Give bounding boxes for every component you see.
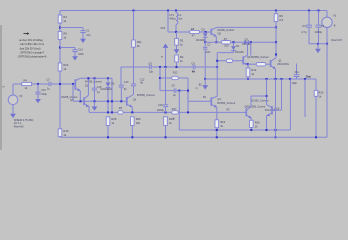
svg-text:R19: R19 (220, 120, 225, 124)
svg-text:4.7µ: 4.7µ (301, 30, 307, 34)
svg-text:Rser=0.5: Rser=0.5 (332, 38, 343, 42)
svg-text:10p: 10p (149, 70, 154, 73)
svg-text:100: 100 (224, 44, 229, 47)
svg-text:C14: C14 (78, 48, 83, 51)
svg-text:R13: R13 (251, 68, 256, 72)
svg-text:R3: R3 (63, 15, 67, 19)
svg-text:.tran 0 80m 30m 0.1u: .tran 0 80m 30m 0.1u (20, 42, 45, 46)
svg-text:R9: R9 (279, 14, 283, 18)
svg-text:R26: R26 (136, 117, 141, 121)
svg-text:R20: R20 (255, 120, 260, 124)
svg-text:R12: R12 (173, 72, 178, 75)
svg-text:R27: R27 (169, 117, 174, 121)
svg-text:640µ: 640µ (170, 16, 176, 20)
svg-text:Q8 BC550_Curent: Q8 BC550_Curent (245, 105, 266, 108)
svg-text:R8: R8 (191, 27, 195, 31)
svg-text:V1: V1 (333, 14, 337, 18)
svg-text:1N4148: 1N4148 (196, 39, 205, 42)
svg-text:C15: C15 (158, 104, 163, 107)
svg-text:Q3: Q3 (133, 98, 137, 101)
svg-text:C10: C10 (41, 89, 46, 92)
svg-text:LT1: LT1 (170, 13, 175, 17)
svg-text:100p: 100p (292, 82, 298, 85)
svg-text:R23: R23 (318, 90, 323, 94)
svg-text:Out: Out (306, 75, 311, 79)
svg-text:C4: C4 (302, 24, 306, 28)
svg-text:C7: C7 (321, 24, 325, 28)
svg-text:R6: R6 (63, 32, 67, 36)
svg-text:R17: R17 (172, 108, 177, 111)
svg-text:100n: 100n (205, 51, 211, 54)
svg-text:.OPTIONS numdgt=7: .OPTIONS numdgt=7 (20, 50, 45, 54)
svg-text:xτ: xτ (161, 56, 163, 59)
svg-text:R15: R15 (63, 129, 68, 133)
svg-text:100n: 100n (78, 53, 84, 56)
svg-text:INV08_Current: INV08_Current (85, 80, 102, 84)
svg-text:C11: C11 (295, 71, 300, 74)
svg-text:.OPTIONS plotwinsize=0: .OPTIONS plotwinsize=0 (18, 54, 47, 58)
svg-text:47µ: 47µ (86, 34, 91, 37)
svg-text:0.5: 0.5 (279, 18, 283, 22)
svg-text:R25: R25 (111, 117, 116, 121)
svg-text:.ac dec 401 10 1Meg: .ac dec 401 10 1Meg (19, 38, 44, 42)
svg-text:BC550_Current: BC550_Current (217, 101, 235, 105)
svg-text:C13: C13 (124, 81, 129, 84)
svg-text:Q6 BC550_Current: Q6 BC550_Current (247, 55, 269, 59)
svg-text:1000p: 1000p (315, 30, 323, 34)
svg-text:R2: R2 (180, 55, 184, 59)
svg-text:1000p: 1000p (157, 109, 165, 112)
svg-text:1N4148: 1N4148 (235, 51, 244, 54)
svg-text:.four 25k 30 V(out): .four 25k 30 V(out) (19, 46, 41, 50)
svg-text:1N4148: 1N4148 (242, 43, 251, 46)
svg-text:100µ: 100µ (41, 93, 47, 96)
svg-text:BC550_Current: BC550_Current (137, 93, 155, 97)
svg-text:2SC1815L: 2SC1815L (277, 63, 289, 66)
svg-text:R11: R11 (137, 40, 142, 44)
svg-text:L1: L1 (179, 13, 182, 17)
svg-text:47: 47 (192, 34, 195, 38)
svg-text:R1: R1 (180, 39, 184, 43)
svg-text:C04: C04 (161, 27, 166, 30)
svg-text:R24: R24 (63, 63, 68, 67)
svg-text:1N4148LP: 1N4148LP (100, 88, 112, 91)
svg-text:m: m (196, 87, 198, 90)
svg-text:Rser=50: Rser=50 (14, 124, 24, 128)
svg-text:10k: 10k (136, 121, 141, 125)
